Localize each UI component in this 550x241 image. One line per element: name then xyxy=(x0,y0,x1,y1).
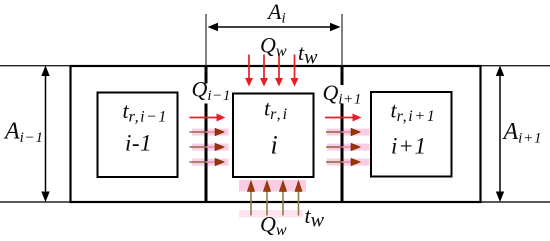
dimension tick above left partition xyxy=(205,14,207,66)
left heat arrow row4 (brown right) xyxy=(190,158,225,166)
pink highlight band left row2 xyxy=(192,129,229,136)
pink highlight band right row2 xyxy=(327,129,370,136)
svg-text:tr,i: tr,i xyxy=(264,96,289,124)
svg-text:Qw: Qw xyxy=(260,33,287,61)
pink highlight band left row3 xyxy=(192,144,229,151)
svg-text:i+1: i+1 xyxy=(391,134,427,159)
room box i-1 xyxy=(98,93,178,178)
dimension line A_i (horizontal double arrow) xyxy=(208,23,341,31)
partition wall left (divider i-1 / i) xyxy=(205,66,208,202)
wall extension line top-left xyxy=(0,65,71,67)
pink highlight band bottom (under Qw/tw up arrows) xyxy=(239,180,306,192)
right heat arrow row2 (brown right) xyxy=(326,128,361,136)
room box i+1 xyxy=(371,92,452,177)
wall extension line bottom-left xyxy=(0,201,71,203)
top wall heat arrow 3 (red down) xyxy=(275,55,283,87)
svg-text:Ai: Ai xyxy=(266,0,286,27)
room box i xyxy=(233,94,314,178)
pink highlight band right row3 xyxy=(327,144,370,151)
top wall heat arrow 4 (red down) xyxy=(291,55,299,87)
svg-text:tw: tw xyxy=(305,203,325,232)
svg-text:Ai−1: Ai−1 xyxy=(3,119,44,147)
dimension line A_i+1 (vertical double arrow, right) xyxy=(496,66,504,203)
svg-text:i: i xyxy=(271,131,278,160)
bottom wall heat arrow 2 (brown up) xyxy=(263,181,270,216)
partition wall right (divider i / i+1) xyxy=(341,66,344,202)
left heat arrow row2 (brown right) xyxy=(190,128,225,136)
wall extension line bottom-right xyxy=(481,201,550,203)
label Q_i+1 white backing xyxy=(322,85,359,104)
svg-text:i-1: i-1 xyxy=(125,131,152,156)
svg-text:tr,i+1: tr,i+1 xyxy=(391,98,437,126)
left heat arrow row1 (red right) xyxy=(190,114,226,122)
right heat arrow row4 (brown right) xyxy=(326,158,361,166)
bottom wall heat arrow 4 (brown up) xyxy=(295,181,302,216)
svg-text:Qi−1: Qi−1 xyxy=(192,77,231,105)
right heat arrow row1 (red right) xyxy=(325,114,362,122)
pink highlight band bottom faint xyxy=(239,210,303,218)
pink highlight band left row4 xyxy=(192,159,229,166)
left heat arrow row3 (brown right) xyxy=(190,143,225,151)
dimension line A_i-1 (vertical double arrow, left) xyxy=(41,66,49,203)
wall extension line top-right xyxy=(481,65,550,67)
top wall heat arrow 2 (red down) xyxy=(260,55,268,87)
svg-text:tw: tw xyxy=(298,40,318,69)
svg-text:tr,i−1: tr,i−1 xyxy=(123,98,168,126)
bottom wall heat arrow 3 (brown up) xyxy=(279,181,286,216)
right heat arrow row3 (brown right) xyxy=(326,143,361,151)
top wall heat arrow 1 (red down) xyxy=(245,55,253,87)
bottom wall heat arrow 1 (brown up) xyxy=(247,181,254,216)
outer wall box xyxy=(71,66,481,202)
dimension tick above right partition xyxy=(341,14,343,66)
pink highlight band right row4 xyxy=(327,159,370,166)
label Q_i-1 white backing xyxy=(189,84,227,104)
svg-text:Ai+1: Ai+1 xyxy=(502,119,543,147)
